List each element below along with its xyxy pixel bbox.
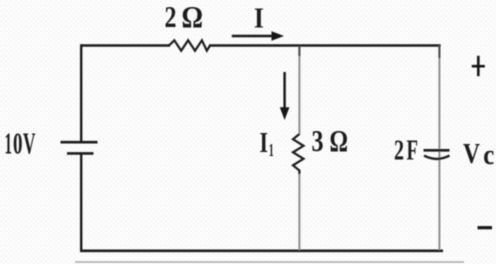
- label Vc: [463, 138, 494, 171]
- svg-text:Ω: Ω: [182, 0, 204, 34]
- wire middle branch lower (grey): [298, 174, 300, 250]
- current arrow I1 pointing down: [280, 72, 290, 120]
- minus polarity sign: [478, 226, 493, 229]
- capacitor C1 curved bottom plate: [424, 156, 450, 159]
- junction stub top of right branch: [438, 45, 440, 58]
- label 3 ohm for R2: [312, 123, 349, 158]
- wire left vertical upper (top corner to battery): [80, 44, 82, 142]
- svg-text:2: 2: [165, 0, 177, 34]
- svg-text:1: 1: [5, 125, 13, 160]
- svg-text:Ω: Ω: [330, 123, 349, 158]
- wire top from left corner to resistor R1: [81, 44, 170, 47]
- capacitor C1 top plate: [424, 149, 450, 152]
- label 10V: [5, 125, 36, 160]
- label 2F: [394, 134, 418, 166]
- label 2 ohm for R1: [165, 0, 204, 34]
- wire bottom: [80, 250, 443, 253]
- svg-text:c: c: [483, 139, 494, 171]
- svg-text:1: 1: [269, 140, 274, 160]
- svg-text:2: 2: [394, 134, 404, 166]
- junction stub top of middle branch: [298, 46, 300, 56]
- wire right branch vertical (grey): [438, 45, 440, 250]
- current arrow I: [232, 31, 284, 41]
- resistor R1 2ohm zigzag: [169, 40, 210, 50]
- battery V1 positive plate: [61, 141, 98, 144]
- battery V1 negative plate: [67, 152, 94, 155]
- wire middle branch upper (grey): [298, 46, 300, 135]
- svg-text:F: F: [407, 134, 419, 166]
- svg-text:I: I: [260, 128, 269, 159]
- svg-text:V: V: [463, 138, 480, 170]
- svg-text:I: I: [254, 2, 264, 34]
- wire left vertical lower (battery to bottom corner): [80, 153, 82, 252]
- svg-text:V: V: [23, 125, 36, 160]
- wire top from resistor R1 to right corner: [209, 44, 441, 47]
- resistor R2 3ohm zigzag vertical: [293, 134, 304, 175]
- label I1: [260, 128, 274, 160]
- plus polarity sign: [472, 56, 485, 76]
- svg-text:0: 0: [13, 125, 23, 160]
- svg-text:3: 3: [312, 123, 324, 158]
